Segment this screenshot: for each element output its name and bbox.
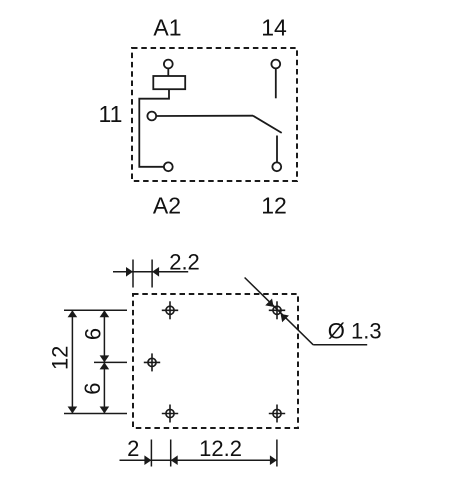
svg-text:2.2: 2.2 [169, 249, 200, 274]
svg-text:6: 6 [81, 328, 106, 340]
svg-text:14: 14 [261, 15, 287, 41]
svg-text:A2: A2 [153, 193, 181, 219]
svg-text:A1: A1 [153, 15, 181, 41]
svg-text:Ø 1.3: Ø 1.3 [328, 319, 382, 344]
svg-text:11: 11 [99, 101, 123, 127]
svg-text:12: 12 [261, 193, 287, 219]
svg-text:6: 6 [80, 382, 105, 394]
svg-text:2: 2 [127, 436, 139, 461]
svg-text:12.2: 12.2 [199, 436, 242, 461]
svg-text:12: 12 [47, 346, 72, 370]
